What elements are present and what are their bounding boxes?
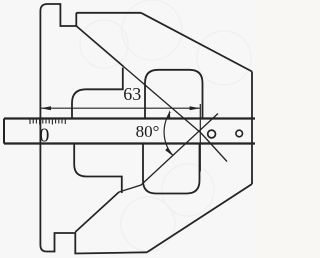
outer bottom diagonal bbox=[147, 184, 252, 252]
arc upper arrow bbox=[167, 110, 171, 119]
main top edge bbox=[76, 12, 141, 14]
rivet circle 2 bbox=[236, 130, 243, 137]
top obround slot bbox=[145, 70, 203, 119]
arc lower arrow bbox=[165, 147, 173, 156]
labels bbox=[39, 84, 159, 147]
bevel line B: bottom bevel edge (thick part on workpiece) bbox=[75, 192, 119, 232]
80 degree arc bbox=[164, 112, 173, 156]
right edge bbox=[251, 72, 253, 185]
bevel line A: thin extension through vertex bbox=[124, 67, 228, 162]
notch right vertical top bbox=[75, 13, 77, 26]
top ledge inner contour bbox=[72, 68, 123, 119]
dimension right extension line through ruler bbox=[199, 104, 201, 172]
ruler tick marks bbox=[30, 120, 65, 125]
paper background bbox=[0, 0, 255, 258]
svg-text:80°: 80° bbox=[136, 122, 160, 141]
outer top diagonal bbox=[141, 13, 252, 72]
bottom obround slot bbox=[143, 144, 200, 194]
faint watermark circles bbox=[80, 0, 251, 251]
ruler blade bbox=[4, 117, 255, 119]
svg-text:63: 63 bbox=[123, 84, 141, 104]
workpiece outline: top-left bar bbox=[40, 4, 76, 245]
bevel line A: top bevel edge (thick part on workpiece) bbox=[76, 26, 123, 67]
dim 63 left arrow bbox=[41, 106, 51, 110]
dim 63 right arrow bbox=[190, 106, 200, 110]
svg-text:0: 0 bbox=[39, 125, 49, 147]
dimension 63 line bbox=[41, 107, 200, 109]
arrowheads bbox=[41, 106, 200, 156]
bevel line B: thin extension through vertex bbox=[119, 114, 218, 193]
rivet circle 1 bbox=[208, 130, 216, 138]
bottom edge bbox=[40, 233, 147, 254]
bottom ledge inner contour bbox=[74, 144, 122, 194]
